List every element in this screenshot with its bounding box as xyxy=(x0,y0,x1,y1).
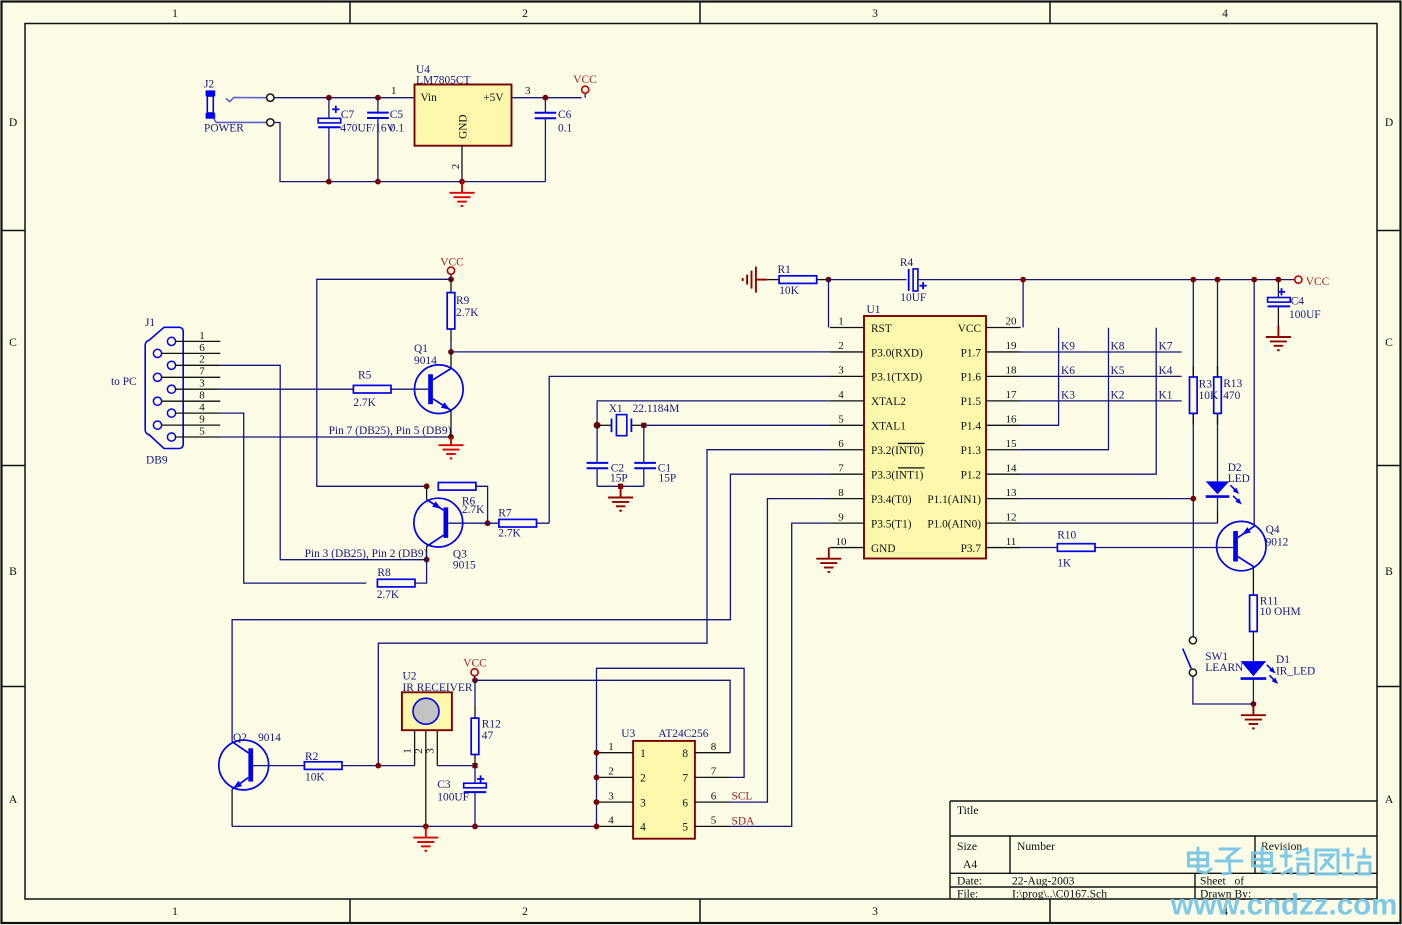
svg-text:+5V: +5V xyxy=(483,92,504,104)
wire xyxy=(280,559,426,561)
svg-text:12: 12 xyxy=(1006,511,1017,523)
svg-text:C: C xyxy=(1385,336,1393,349)
pin 7 U3 xyxy=(682,766,730,785)
wire net SDA xyxy=(730,523,830,826)
capacitor R4 (10UF) xyxy=(900,257,927,304)
svg-text:2.7K: 2.7K xyxy=(498,528,521,540)
svg-text:P3.2(INT0): P3.2(INT0) xyxy=(871,445,924,457)
key K5 xyxy=(1111,365,1125,377)
wire xyxy=(328,98,330,119)
wire xyxy=(274,97,414,99)
svg-text:Number: Number xyxy=(1017,840,1055,853)
junction xyxy=(448,434,454,440)
svg-text:10 OHM: 10 OHM xyxy=(1260,606,1301,618)
svg-text:11: 11 xyxy=(1006,536,1017,548)
svg-text:2.7K: 2.7K xyxy=(462,504,485,516)
svg-text:100UF: 100UF xyxy=(1289,309,1321,321)
junction xyxy=(375,763,381,769)
svg-text:Q2: Q2 xyxy=(233,732,247,744)
svg-text:Pin 7 (DB25), Pin 5 (DB9): Pin 7 (DB25), Pin 5 (DB9) xyxy=(329,425,452,437)
pin 18 U1 P1.6 xyxy=(961,365,1021,384)
resistor R1 xyxy=(779,276,817,284)
svg-text:7: 7 xyxy=(711,766,717,778)
wire xyxy=(342,765,415,767)
wire VCC rail xyxy=(829,279,1295,281)
wire xyxy=(597,668,745,826)
wire xyxy=(220,388,428,390)
pin 6 U1 P3.2(INT0) xyxy=(830,438,924,457)
svg-text:SCL: SCL xyxy=(732,791,753,803)
svg-text:10K: 10K xyxy=(779,285,799,297)
resistor R2 xyxy=(304,762,342,770)
svg-text:4: 4 xyxy=(199,402,205,414)
wire xyxy=(549,376,830,523)
ground xyxy=(608,486,633,510)
wire xyxy=(253,765,305,767)
svg-text:R9: R9 xyxy=(456,295,470,307)
svg-text:2: 2 xyxy=(522,7,528,20)
wire xyxy=(474,792,476,826)
svg-text:17: 17 xyxy=(1006,389,1018,401)
svg-text:K3: K3 xyxy=(1061,389,1075,401)
svg-text:0.1: 0.1 xyxy=(558,123,573,135)
wire xyxy=(1217,497,1219,511)
pin 8 U3 xyxy=(682,741,730,760)
junction xyxy=(1251,701,1257,707)
svg-text:1: 1 xyxy=(172,905,178,918)
wire P3.7 xyxy=(1021,547,1059,549)
svg-text:www.cndzz.com: www.cndzz.com xyxy=(1170,889,1398,922)
wire xyxy=(828,280,830,328)
svg-text:P1.4: P1.4 xyxy=(961,421,982,433)
svg-text:P1.3: P1.3 xyxy=(961,445,982,457)
svg-text:U1: U1 xyxy=(867,304,881,316)
wire xyxy=(448,522,549,524)
resistor R6 xyxy=(438,483,476,491)
svg-text:to PC: to PC xyxy=(111,376,137,388)
svg-text:6: 6 xyxy=(838,438,844,450)
svg-text:3: 3 xyxy=(872,7,878,20)
svg-text:1: 1 xyxy=(838,316,844,328)
overline INT1 xyxy=(898,467,925,469)
wire xyxy=(1217,280,1219,482)
svg-text:16: 16 xyxy=(1006,414,1018,426)
IC U2 IR receiver xyxy=(402,671,473,731)
pin 4 U3 xyxy=(598,815,646,834)
key K6 xyxy=(1061,365,1075,377)
transistor Q3 xyxy=(414,486,476,571)
power port VCC xyxy=(440,257,463,280)
pin 14 U1 P1.2 xyxy=(961,462,1021,481)
svg-text:2: 2 xyxy=(522,905,528,918)
wire xyxy=(474,680,476,706)
wire xyxy=(450,279,452,292)
capacitor C7 xyxy=(318,106,341,128)
svg-text:10K: 10K xyxy=(305,771,325,783)
wire xyxy=(220,413,366,583)
wire row P1.7 xyxy=(1021,351,1182,353)
svg-text:7: 7 xyxy=(199,366,205,378)
wire xyxy=(437,765,475,767)
svg-text:2: 2 xyxy=(413,748,425,754)
capacitor C1 xyxy=(634,463,656,468)
svg-text:9014: 9014 xyxy=(414,355,437,367)
wire xyxy=(643,425,645,463)
svg-text:Q4: Q4 xyxy=(1266,524,1280,536)
svg-text:4: 4 xyxy=(608,815,614,827)
pin 4 U1 XTAL2 xyxy=(830,389,906,408)
pin 5 U1 XTAL1 xyxy=(830,414,906,433)
svg-text:D: D xyxy=(1385,116,1393,129)
svg-text:15P: 15P xyxy=(659,473,677,485)
wire xyxy=(597,485,644,487)
wire xyxy=(1192,280,1194,637)
pin 5 J1 xyxy=(176,425,221,437)
svg-text:R12: R12 xyxy=(482,718,501,730)
pin 12 U1 P1.0(AIN0) xyxy=(927,511,1020,530)
ground xyxy=(816,548,841,572)
key K3 xyxy=(1061,389,1075,401)
svg-text:K1: K1 xyxy=(1159,389,1173,401)
svg-text:P1.2: P1.2 xyxy=(961,470,982,482)
svg-text:P1.7: P1.7 xyxy=(961,347,982,359)
svg-text:Size: Size xyxy=(957,840,977,853)
svg-text:14: 14 xyxy=(1006,462,1018,474)
junction xyxy=(472,763,477,768)
key K7 xyxy=(1159,340,1173,352)
svg-text:2: 2 xyxy=(199,354,205,366)
pin 3 J1 xyxy=(176,378,221,390)
pin 7 J1 xyxy=(162,366,221,378)
svg-text:U3: U3 xyxy=(621,728,635,740)
junction xyxy=(1190,496,1196,502)
wire P1.1 xyxy=(1021,498,1194,500)
svg-text:Sheet of: Sheet of xyxy=(1200,875,1244,888)
IC U3 AT24C256 xyxy=(621,728,708,839)
svg-text:Q1: Q1 xyxy=(414,343,428,355)
pin 1 J1 xyxy=(176,330,221,342)
capacitor C5 xyxy=(367,113,389,118)
ground xyxy=(1266,326,1291,350)
svg-text:P1.0(AIN0): P1.0(AIN0) xyxy=(927,518,981,530)
svg-text:AT24C256: AT24C256 xyxy=(658,728,708,740)
svg-text:VCC: VCC xyxy=(463,658,486,670)
svg-text:K4: K4 xyxy=(1159,365,1173,377)
wire xyxy=(1253,280,1255,527)
title block xyxy=(950,801,1377,901)
wire xyxy=(1094,547,1233,549)
svg-text:22.1184M: 22.1184M xyxy=(633,403,680,415)
wire net INT0 xyxy=(378,450,830,766)
svg-text:2.7K: 2.7K xyxy=(456,307,479,319)
wire xyxy=(474,766,476,784)
crystal X1 xyxy=(597,403,679,436)
svg-text:Title: Title xyxy=(957,804,978,817)
svg-text:C: C xyxy=(9,336,17,349)
svg-text:5: 5 xyxy=(199,425,205,437)
pin 11 U1 P3.7 xyxy=(961,536,1021,555)
resistor R13 xyxy=(1214,377,1222,413)
svg-text:18: 18 xyxy=(1006,365,1018,377)
svg-text:4: 4 xyxy=(1222,7,1228,20)
junction xyxy=(1190,277,1196,283)
junction xyxy=(543,95,549,101)
svg-text:2.7K: 2.7K xyxy=(377,589,400,601)
capacitor C2 xyxy=(587,463,609,468)
svg-text:DB9: DB9 xyxy=(146,454,168,466)
pin 1 U3 xyxy=(598,741,646,760)
svg-text:3: 3 xyxy=(199,378,205,390)
svg-text:R4: R4 xyxy=(900,257,914,269)
svg-text:K5: K5 xyxy=(1111,365,1125,377)
pin 4 J1 xyxy=(176,402,221,414)
svg-text:Pin 3 (DB25), Pin 2 (DB9): Pin 3 (DB25), Pin 2 (DB9) xyxy=(305,548,428,560)
wire xyxy=(415,560,427,584)
resistor R11 xyxy=(1250,595,1258,631)
resistor R7 xyxy=(499,519,537,527)
pin 2 U3 xyxy=(598,766,646,785)
svg-text:P3.0(RXD): P3.0(RXD) xyxy=(871,347,923,359)
wire xyxy=(512,97,582,99)
key K8 xyxy=(1111,340,1125,352)
svg-text:C7: C7 xyxy=(341,109,355,121)
pin 2 U2 xyxy=(413,730,426,826)
svg-text:GND: GND xyxy=(871,543,895,555)
svg-text:19: 19 xyxy=(1006,340,1018,352)
power port VCC xyxy=(573,74,596,98)
svg-text:7: 7 xyxy=(838,462,844,474)
LED D1 IR_LED xyxy=(1241,654,1316,684)
svg-text:R7: R7 xyxy=(498,507,512,519)
junction xyxy=(594,799,600,805)
svg-text:P3.5(T1): P3.5(T1) xyxy=(871,518,912,530)
pin 3 U3 xyxy=(598,790,646,809)
wire xyxy=(767,279,779,281)
svg-text:C4: C4 xyxy=(1291,295,1305,307)
wire xyxy=(596,425,598,463)
wire xyxy=(317,279,451,486)
svg-text:B: B xyxy=(9,565,17,578)
junction xyxy=(423,824,429,830)
svg-text:9015: 9015 xyxy=(453,559,476,571)
wire xyxy=(817,279,829,281)
svg-text:5: 5 xyxy=(711,815,717,827)
wire xyxy=(274,123,545,182)
svg-text:0.1: 0.1 xyxy=(390,123,405,135)
svg-text:Vin: Vin xyxy=(421,92,438,104)
svg-text:9012: 9012 xyxy=(1266,537,1289,549)
wire xyxy=(220,365,426,559)
svg-text:9014: 9014 xyxy=(258,732,281,744)
svg-text:470: 470 xyxy=(1223,390,1240,402)
key K1 xyxy=(1159,389,1173,401)
junction xyxy=(459,179,465,185)
junction xyxy=(424,557,430,563)
pin 13 U1 P1.1(AIN1) xyxy=(927,487,1020,506)
resistor R12 xyxy=(471,718,479,754)
svg-text:1K: 1K xyxy=(1057,557,1072,569)
svg-text:7: 7 xyxy=(682,773,688,785)
junction xyxy=(1251,277,1257,283)
svg-text:Date:: Date: xyxy=(957,875,982,888)
wire xyxy=(1022,280,1024,328)
svg-text:10UF: 10UF xyxy=(900,292,926,304)
wire xyxy=(476,486,488,523)
svg-text:8: 8 xyxy=(199,390,205,402)
power port VCC xyxy=(1295,276,1330,288)
svg-text:6: 6 xyxy=(711,790,717,802)
svg-text:R2: R2 xyxy=(305,751,319,763)
junction xyxy=(448,276,454,282)
svg-text:B: B xyxy=(1385,565,1393,578)
wire VCC to U3 pin 8 xyxy=(475,680,730,752)
svg-text:9: 9 xyxy=(838,511,844,523)
IC U1 xyxy=(864,304,986,559)
wire xyxy=(596,468,598,486)
wire ground rail xyxy=(232,825,596,827)
junction xyxy=(1215,277,1221,283)
pin 3 U1 P3.1(TXD) xyxy=(830,365,922,384)
connector J2 xyxy=(204,79,274,135)
pin 16 U1 P1.4 xyxy=(961,414,1021,433)
junction xyxy=(485,520,491,526)
svg-text:3: 3 xyxy=(424,748,436,754)
svg-text:1: 1 xyxy=(199,330,205,342)
wire xyxy=(1252,632,1254,662)
capacitor C4 xyxy=(1268,280,1321,326)
svg-text:VCC: VCC xyxy=(958,323,981,335)
svg-text:XTAL1: XTAL1 xyxy=(871,421,906,433)
pin 3 U2 xyxy=(424,730,437,765)
svg-text:R8: R8 xyxy=(377,567,391,579)
wire xyxy=(220,436,451,438)
svg-text:5: 5 xyxy=(838,414,844,426)
svg-text:13: 13 xyxy=(1006,487,1018,499)
svg-text:D1: D1 xyxy=(1276,654,1290,666)
svg-text:5: 5 xyxy=(682,822,688,834)
watermark xyxy=(1170,848,1398,922)
svg-text:LED: LED xyxy=(1228,473,1250,485)
wire xyxy=(1193,676,1254,704)
pin 2 U4 xyxy=(450,146,462,182)
svg-text:IR_LED: IR_LED xyxy=(1276,666,1315,678)
pin 7 U1 P3.3(INT1) xyxy=(830,462,924,481)
junction xyxy=(1276,277,1282,283)
pin 8 J1 xyxy=(162,390,221,402)
svg-text:3: 3 xyxy=(872,905,878,918)
key K2 xyxy=(1111,389,1125,401)
svg-text:4: 4 xyxy=(640,822,646,834)
key K4 xyxy=(1159,365,1173,377)
junction xyxy=(594,775,600,781)
svg-text:R3: R3 xyxy=(1199,378,1213,390)
switch SW1 xyxy=(1183,637,1244,677)
pin 20 U1 VCC xyxy=(958,316,1021,335)
pin 2 J1 xyxy=(176,354,221,366)
junction xyxy=(1020,277,1026,283)
svg-text:3: 3 xyxy=(525,85,531,97)
svg-text:P1.5: P1.5 xyxy=(961,396,982,408)
svg-text:X1: X1 xyxy=(609,403,623,415)
svg-text:10K: 10K xyxy=(1199,390,1219,402)
LED D2 xyxy=(1206,462,1250,504)
wire net SCL xyxy=(730,499,830,802)
svg-text:1: 1 xyxy=(608,741,614,753)
svg-text:8: 8 xyxy=(682,748,688,760)
wire xyxy=(474,755,476,766)
svg-text:1: 1 xyxy=(402,748,414,754)
pin 6 U3 xyxy=(682,790,730,809)
wire xyxy=(377,118,379,182)
svg-text:SW1: SW1 xyxy=(1205,651,1228,663)
pin 1 U2 xyxy=(402,730,415,765)
wire xyxy=(377,98,379,113)
wire xyxy=(643,468,645,486)
connector J1 DB9 xyxy=(111,317,183,467)
capacitor C4 plates xyxy=(1268,288,1291,306)
svg-text:C3: C3 xyxy=(437,779,451,791)
ground xyxy=(743,267,768,293)
svg-text:IR RECEIVER: IR RECEIVER xyxy=(403,682,473,694)
wire P1.0 xyxy=(1021,522,1218,524)
junction xyxy=(472,677,478,683)
svg-text:3: 3 xyxy=(640,797,646,809)
svg-text:LM7805CT: LM7805CT xyxy=(416,74,470,86)
capacitor C6 xyxy=(535,113,557,118)
node SCL xyxy=(732,791,753,803)
junction xyxy=(594,422,601,429)
svg-text:P3.3(INT1): P3.3(INT1) xyxy=(871,470,924,482)
ground xyxy=(439,437,464,458)
pin 6 J1 xyxy=(162,342,221,354)
wire net INT1 xyxy=(232,474,830,742)
wire xyxy=(328,127,330,181)
svg-text:470UF/16V: 470UF/16V xyxy=(340,123,395,135)
svg-text:R13: R13 xyxy=(1223,378,1242,390)
svg-text:1: 1 xyxy=(172,7,178,20)
svg-text:A: A xyxy=(1385,793,1394,806)
pin 8 U1 P3.4(T0) xyxy=(830,487,912,506)
svg-text:1: 1 xyxy=(391,85,397,97)
wire xyxy=(1252,679,1254,704)
pin 5 U3 xyxy=(682,815,730,834)
key K9 xyxy=(1061,340,1075,352)
svg-text:J2: J2 xyxy=(204,79,214,91)
svg-text:15P: 15P xyxy=(610,473,628,485)
svg-text:POWER: POWER xyxy=(204,123,244,135)
capacitor C3 xyxy=(464,775,487,792)
svg-text:K2: K2 xyxy=(1111,389,1125,401)
junction xyxy=(618,484,623,489)
svg-text:6: 6 xyxy=(682,797,688,809)
transistor Q4 xyxy=(1217,521,1289,595)
wire xyxy=(597,401,830,425)
svg-text:U2: U2 xyxy=(403,671,417,683)
svg-text:A: A xyxy=(9,793,18,806)
junction xyxy=(594,750,600,756)
voltage regulator U4 xyxy=(415,64,512,146)
pin 9 U1 P3.5(T1) xyxy=(830,511,912,530)
svg-text:A4: A4 xyxy=(963,858,977,871)
svg-text:P1.1(AIN1): P1.1(AIN1) xyxy=(927,494,981,506)
wire row P1.5 xyxy=(1021,400,1182,402)
svg-text:10: 10 xyxy=(836,536,848,548)
svg-text:47: 47 xyxy=(482,730,494,742)
wire xyxy=(544,118,546,181)
power port VCC xyxy=(463,658,486,681)
pin 10 ground xyxy=(828,548,830,550)
svg-text:GND: GND xyxy=(458,114,470,138)
